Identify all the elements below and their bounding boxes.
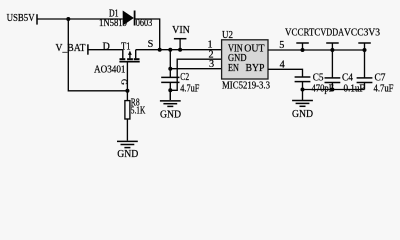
- svg-text:AO3401: AO3401: [94, 65, 126, 76]
- node junction VCCRTC: [301, 48, 305, 52]
- svg-text:MIC5219-3.3: MIC5219-3.3: [222, 81, 270, 92]
- svg-text:VDDA: VDDA: [320, 27, 344, 38]
- svg-text:5: 5: [279, 40, 284, 51]
- ground under C2: [160, 90, 181, 120]
- node junction C5/ground: [301, 88, 305, 92]
- ground under R8: [117, 141, 138, 160]
- svg-text:G: G: [120, 79, 129, 85]
- svg-text:4.7uF: 4.7uF: [180, 83, 199, 94]
- svg-text:GND: GND: [117, 149, 138, 160]
- node junction gate/R8/USB feed: [125, 89, 129, 93]
- node junction EN/C2 line: [168, 67, 172, 71]
- svg-text:5.1K: 5.1K: [131, 106, 146, 117]
- wire V_BAT to drain: [88, 49, 123, 51]
- svg-text:C7: C7: [375, 72, 386, 83]
- svg-text:0.1uF: 0.1uF: [344, 84, 365, 95]
- svg-text:GND: GND: [292, 109, 313, 120]
- wire U2 pin3 EN to VIN net: [170, 68, 222, 70]
- svg-text:U2: U2: [222, 30, 233, 41]
- node junction C2 branch: [168, 48, 172, 52]
- port USB5V: [7, 13, 37, 25]
- svg-text:C4: C4: [342, 72, 353, 83]
- source stub: [135, 50, 137, 59]
- svg-text:GND: GND: [160, 109, 181, 120]
- wire U2 pin4 BYP to C5: [268, 69, 303, 77]
- svg-text:BYP: BYP: [246, 63, 265, 74]
- svg-text:S: S: [148, 39, 154, 50]
- node junction C4/ground rail: [330, 88, 334, 92]
- svg-text:C2: C2: [180, 72, 189, 83]
- ground under C5: [292, 90, 313, 120]
- svg-text:3: 3: [209, 59, 214, 70]
- wire gate feed from USB5V down to R8 top: [68, 19, 127, 91]
- wire U2 pin2 GND down to ground: [170, 59, 222, 90]
- capacitor C5 470pF: [295, 72, 334, 94]
- resistor R8 5.1K: [125, 98, 146, 141]
- diode D1 1N5819: [99, 8, 152, 29]
- IC U2 MIC5219-3.3: [207, 30, 284, 91]
- svg-text:OUT: OUT: [244, 44, 265, 55]
- svg-text:C5: C5: [313, 72, 324, 83]
- capacitor C7 4.7uF: [357, 50, 394, 95]
- port VDDA: [320, 27, 344, 50]
- node junction VIN port: [178, 48, 182, 52]
- port V_BAT: [56, 43, 88, 55]
- wire diode cathode to VIN rail corner: [135, 19, 160, 50]
- svg-text:USB5V: USB5V: [7, 13, 36, 24]
- wire source to U2 pin1 rail: [136, 49, 222, 51]
- svg-text:VCC3V3: VCC3V3: [344, 27, 380, 38]
- svg-text:4.7uF: 4.7uF: [374, 84, 394, 95]
- svg-text:VIN: VIN: [172, 25, 190, 36]
- svg-text:D: D: [103, 41, 110, 52]
- wire USB5V rail to diode: [37, 18, 123, 20]
- wire capacitor ground rail: [303, 89, 365, 91]
- gate pin G: [126, 62, 128, 102]
- svg-text:VCCRTC: VCCRTC: [285, 27, 321, 38]
- body stub with arrow: [129, 53, 131, 58]
- gate bar: [119, 61, 139, 63]
- node junction VCC3V3/C7: [363, 48, 367, 52]
- node junction VDDA/C4: [330, 48, 334, 52]
- capacitor C4 0.1uF: [325, 50, 365, 95]
- transistor T1 AO3401 PMOS: [94, 39, 154, 102]
- drain stub: [122, 50, 124, 59]
- node junction diode/source: [158, 48, 162, 52]
- svg-text:EN: EN: [228, 63, 239, 74]
- port VCC3V3: [344, 27, 380, 50]
- node junction USB5V/gate branch: [66, 17, 70, 21]
- port VIN: [172, 25, 190, 50]
- svg-text:V_BAT: V_BAT: [56, 43, 87, 54]
- channel pads: [120, 58, 126, 60]
- node junction GND/C2 line: [168, 88, 172, 92]
- wire U2 pin5 OUT rail: [268, 49, 366, 51]
- capacitor C2 4.7uF: [161, 50, 199, 100]
- port VCCRTC: [285, 27, 321, 50]
